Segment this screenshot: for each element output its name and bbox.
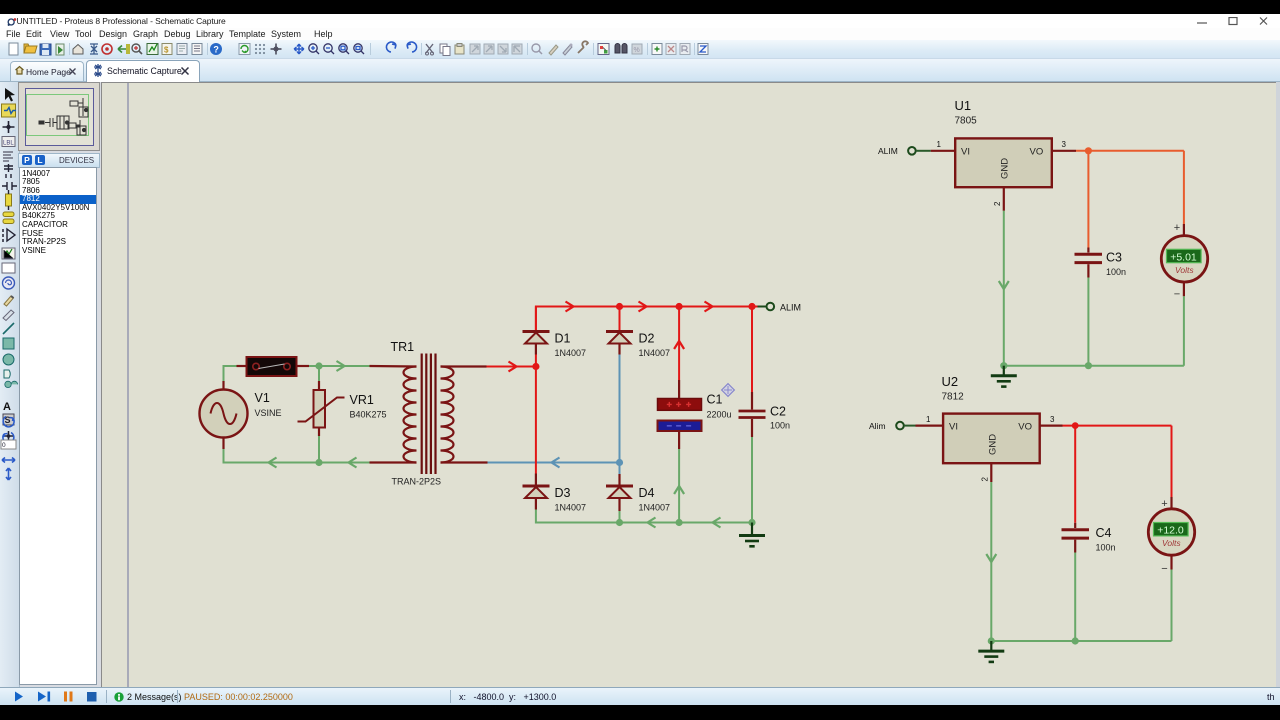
ground (U1) xyxy=(991,366,1017,387)
svg-text:100n: 100n xyxy=(1096,542,1116,552)
regulator U1 7805 xyxy=(955,98,1052,187)
pin 1 U2 xyxy=(916,415,944,426)
svg-text:VI: VI xyxy=(949,422,958,433)
svg-text:?: ? xyxy=(213,44,219,54)
devices list xyxy=(19,167,97,685)
svg-text:+: + xyxy=(1174,222,1180,234)
terminal ALIM (U1 input) xyxy=(878,146,931,156)
voltmeter (U1 +5.01) xyxy=(1161,222,1207,366)
svg-text:1N4007: 1N4007 xyxy=(639,348,671,358)
svg-text:U1: U1 xyxy=(955,98,972,113)
svg-text:D2: D2 xyxy=(639,332,655,346)
pin 2 U2 / ground wire xyxy=(981,463,997,641)
svg-text:B40K275: B40K275 xyxy=(350,410,387,420)
diode D1 xyxy=(523,307,587,359)
transformer TR1 xyxy=(391,340,488,487)
svg-text:7812: 7812 xyxy=(942,392,965,403)
svg-text:D3: D3 xyxy=(555,486,571,500)
pin 2 U1 / ground wire xyxy=(993,187,1009,366)
wire D2 to blue node xyxy=(616,355,623,475)
svg-text:D1: D1 xyxy=(555,332,571,346)
pin 1 U1 xyxy=(931,140,955,151)
wire ground rail (bridge bottom) xyxy=(536,510,756,528)
svg-text:+: + xyxy=(1161,498,1167,510)
svg-text:$: $ xyxy=(164,46,169,55)
terminal ALIM xyxy=(758,303,802,313)
wire V1 bottom row xyxy=(224,449,417,468)
diode D3 xyxy=(523,474,587,513)
svg-text:+5.01: +5.01 xyxy=(1170,251,1197,263)
left panel xyxy=(0,82,101,687)
varistor VR1 xyxy=(298,366,387,466)
svg-text:VO: VO xyxy=(1030,147,1044,158)
ground (U2) xyxy=(978,641,1004,662)
wire TR1 secondary bottom (blue) xyxy=(488,458,620,468)
sheet border xyxy=(127,83,129,688)
svg-text:ALIM: ALIM xyxy=(878,146,898,156)
toolbar xyxy=(0,40,1280,59)
wire fuse to TR1 primary top xyxy=(309,361,417,371)
svg-text:LBL: LBL xyxy=(3,141,14,147)
svg-text:Volts: Volts xyxy=(1162,538,1181,548)
svg-text:1N4007: 1N4007 xyxy=(639,503,671,513)
svg-text:C2: C2 xyxy=(770,405,786,419)
tab row xyxy=(0,59,1280,82)
svg-text:+12.0: +12.0 xyxy=(1157,525,1184,537)
diode D4 xyxy=(606,474,670,523)
menu bar xyxy=(0,28,1280,40)
svg-text:7805: 7805 xyxy=(955,116,978,127)
wire U2 ground rail xyxy=(988,637,1172,644)
svg-text:C1: C1 xyxy=(707,393,723,407)
svg-text:Alim: Alim xyxy=(869,421,886,431)
node bridge output rail xyxy=(536,302,758,331)
svg-text:2: 2 xyxy=(993,201,1002,206)
preview panel xyxy=(18,82,100,151)
title bar xyxy=(0,14,1280,28)
svg-text:C3: C3 xyxy=(1106,251,1122,265)
svg-text:Volts: Volts xyxy=(1175,265,1194,275)
svg-text:3: 3 xyxy=(1062,140,1067,149)
svg-text:ALIM: ALIM xyxy=(780,303,801,313)
diode D2 xyxy=(606,307,670,359)
capacitor C2 xyxy=(739,307,791,523)
pin 3 U1 / wire to meter xyxy=(1052,140,1184,236)
svg-text:TRAN-2P2S: TRAN-2P2S xyxy=(392,477,442,487)
fuse FU xyxy=(237,357,310,376)
svg-text:−: − xyxy=(1161,563,1167,575)
svg-text:D4: D4 xyxy=(639,486,655,500)
svg-text:−: − xyxy=(1174,289,1180,301)
svg-text:A: A xyxy=(3,401,11,413)
capacitor C1 xyxy=(658,307,732,523)
wire bridge left leg xyxy=(532,355,539,474)
svg-text:0: 0 xyxy=(2,442,6,449)
svg-text:TR1: TR1 xyxy=(391,340,415,354)
capacitor C4 xyxy=(1062,426,1116,641)
regulator U2 7812 xyxy=(942,374,1040,463)
devices header xyxy=(18,153,100,168)
svg-text:C4: C4 xyxy=(1096,526,1112,540)
svg-text:1N4007: 1N4007 xyxy=(555,348,587,358)
svg-text:1: 1 xyxy=(926,415,931,424)
canvas xyxy=(101,82,1277,688)
ground (bridge) xyxy=(739,523,765,547)
wire TR1 secondary top to bridge xyxy=(487,362,536,372)
status bar xyxy=(0,687,1280,705)
svg-text:GND: GND xyxy=(988,434,999,455)
svg-text:VO: VO xyxy=(1018,422,1032,433)
svg-text:2: 2 xyxy=(981,477,990,482)
terminal Alim (U2 input) xyxy=(869,421,916,431)
svg-text:100n: 100n xyxy=(1106,267,1126,277)
capacitor C3 xyxy=(1075,151,1127,366)
svg-text:VR1: VR1 xyxy=(350,393,374,407)
svg-text:1N4007: 1N4007 xyxy=(555,503,587,513)
svg-text:100n: 100n xyxy=(770,421,790,431)
svg-text:V1: V1 xyxy=(255,391,270,405)
wire U1 ground rail xyxy=(1000,362,1184,369)
svg-text:U2: U2 xyxy=(942,374,959,389)
svg-text:1: 1 xyxy=(937,140,942,149)
svg-text:VI: VI xyxy=(961,147,970,158)
svg-text:VSINE: VSINE xyxy=(255,408,282,418)
svg-text:GND: GND xyxy=(1000,158,1011,179)
voltmeter (U2 +12.0) xyxy=(1148,498,1194,641)
move cursor icon xyxy=(722,384,735,397)
wire V1 top to fuse xyxy=(224,366,237,381)
source V1 xyxy=(200,381,282,449)
svg-text:2200u: 2200u xyxy=(707,410,732,420)
svg-text:%: % xyxy=(634,47,640,54)
pin 3 U2 / wire to meter xyxy=(1040,415,1172,509)
svg-text:3: 3 xyxy=(1050,415,1055,424)
